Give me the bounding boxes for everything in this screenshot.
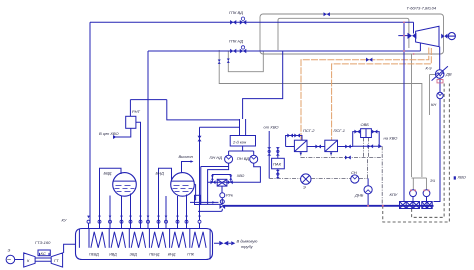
svg-text:В цех ХВО: В цех ХВО xyxy=(99,131,119,136)
svg-text:К-9: К-9 xyxy=(426,66,433,71)
svg-text:ПСГ-1: ПСГ-1 xyxy=(334,128,346,133)
svg-text:ОВБ: ОВБ xyxy=(361,122,370,127)
svg-text:ДВ: ДВ xyxy=(445,72,452,77)
svg-text:Выхлоп: Выхлоп xyxy=(179,154,194,159)
svg-text:ГПК НД: ГПК НД xyxy=(229,39,243,44)
svg-text:Э: Э xyxy=(8,248,11,253)
svg-text:КН: КН xyxy=(431,102,436,107)
svg-text:ЭВД: ЭВД xyxy=(130,253,138,257)
svg-text:ГПК ВД: ГПК ВД xyxy=(229,10,243,15)
svg-text:ХВО: ХВО xyxy=(236,174,245,178)
svg-text:ГТ: ГТ xyxy=(54,258,59,263)
svg-text:ПСГ-2: ПСГ-2 xyxy=(303,128,315,133)
svg-text:КПУ: КПУ xyxy=(390,192,398,197)
svg-text:РНТ: РНТ xyxy=(132,109,141,114)
svg-text:трубу: трубу xyxy=(241,244,254,249)
svg-text:БНД: БНД xyxy=(156,171,164,176)
svg-text:ГПК: ГПК xyxy=(187,253,195,257)
svg-text:ПЕВД: ПЕВД xyxy=(89,253,99,257)
svg-text:ДНБ: ДНБ xyxy=(354,193,364,198)
svg-text:ПЕНД: ПЕНД xyxy=(149,253,160,257)
svg-text:Э: Э xyxy=(303,185,306,190)
svg-text:КУ: КУ xyxy=(62,218,67,223)
svg-text:ХВО: ХВО xyxy=(457,175,466,180)
svg-text:В дымовую: В дымовую xyxy=(237,239,258,244)
svg-text:РУк: РУк xyxy=(226,193,234,198)
svg-text:СН: СН xyxy=(351,170,357,175)
svg-text:ПН ВД: ПН ВД xyxy=(237,156,249,161)
svg-text:ГТЭ-160: ГТЭ-160 xyxy=(35,240,51,245)
svg-text:~: ~ xyxy=(7,255,12,264)
svg-text:от ХВО: от ХВО xyxy=(264,125,279,130)
svg-text:ИНД: ИНД xyxy=(168,253,176,257)
svg-text:К: К xyxy=(27,258,30,263)
svg-text:Т-60/73-7,8/0,04: Т-60/73-7,8/0,04 xyxy=(407,6,437,11)
svg-text:БВД: БВД xyxy=(104,171,112,176)
svg-text:2-й кон: 2-й кон xyxy=(232,140,247,145)
svg-text:ПАК: ПАК xyxy=(273,162,282,167)
svg-text:на ХВО: на ХВО xyxy=(384,136,398,141)
svg-text:КС: КС xyxy=(41,251,46,256)
svg-text:ЗЧ: ЗЧ xyxy=(430,178,435,183)
svg-text:ПН НД: ПН НД xyxy=(210,155,223,160)
svg-text:ИВД: ИВД xyxy=(109,253,117,257)
